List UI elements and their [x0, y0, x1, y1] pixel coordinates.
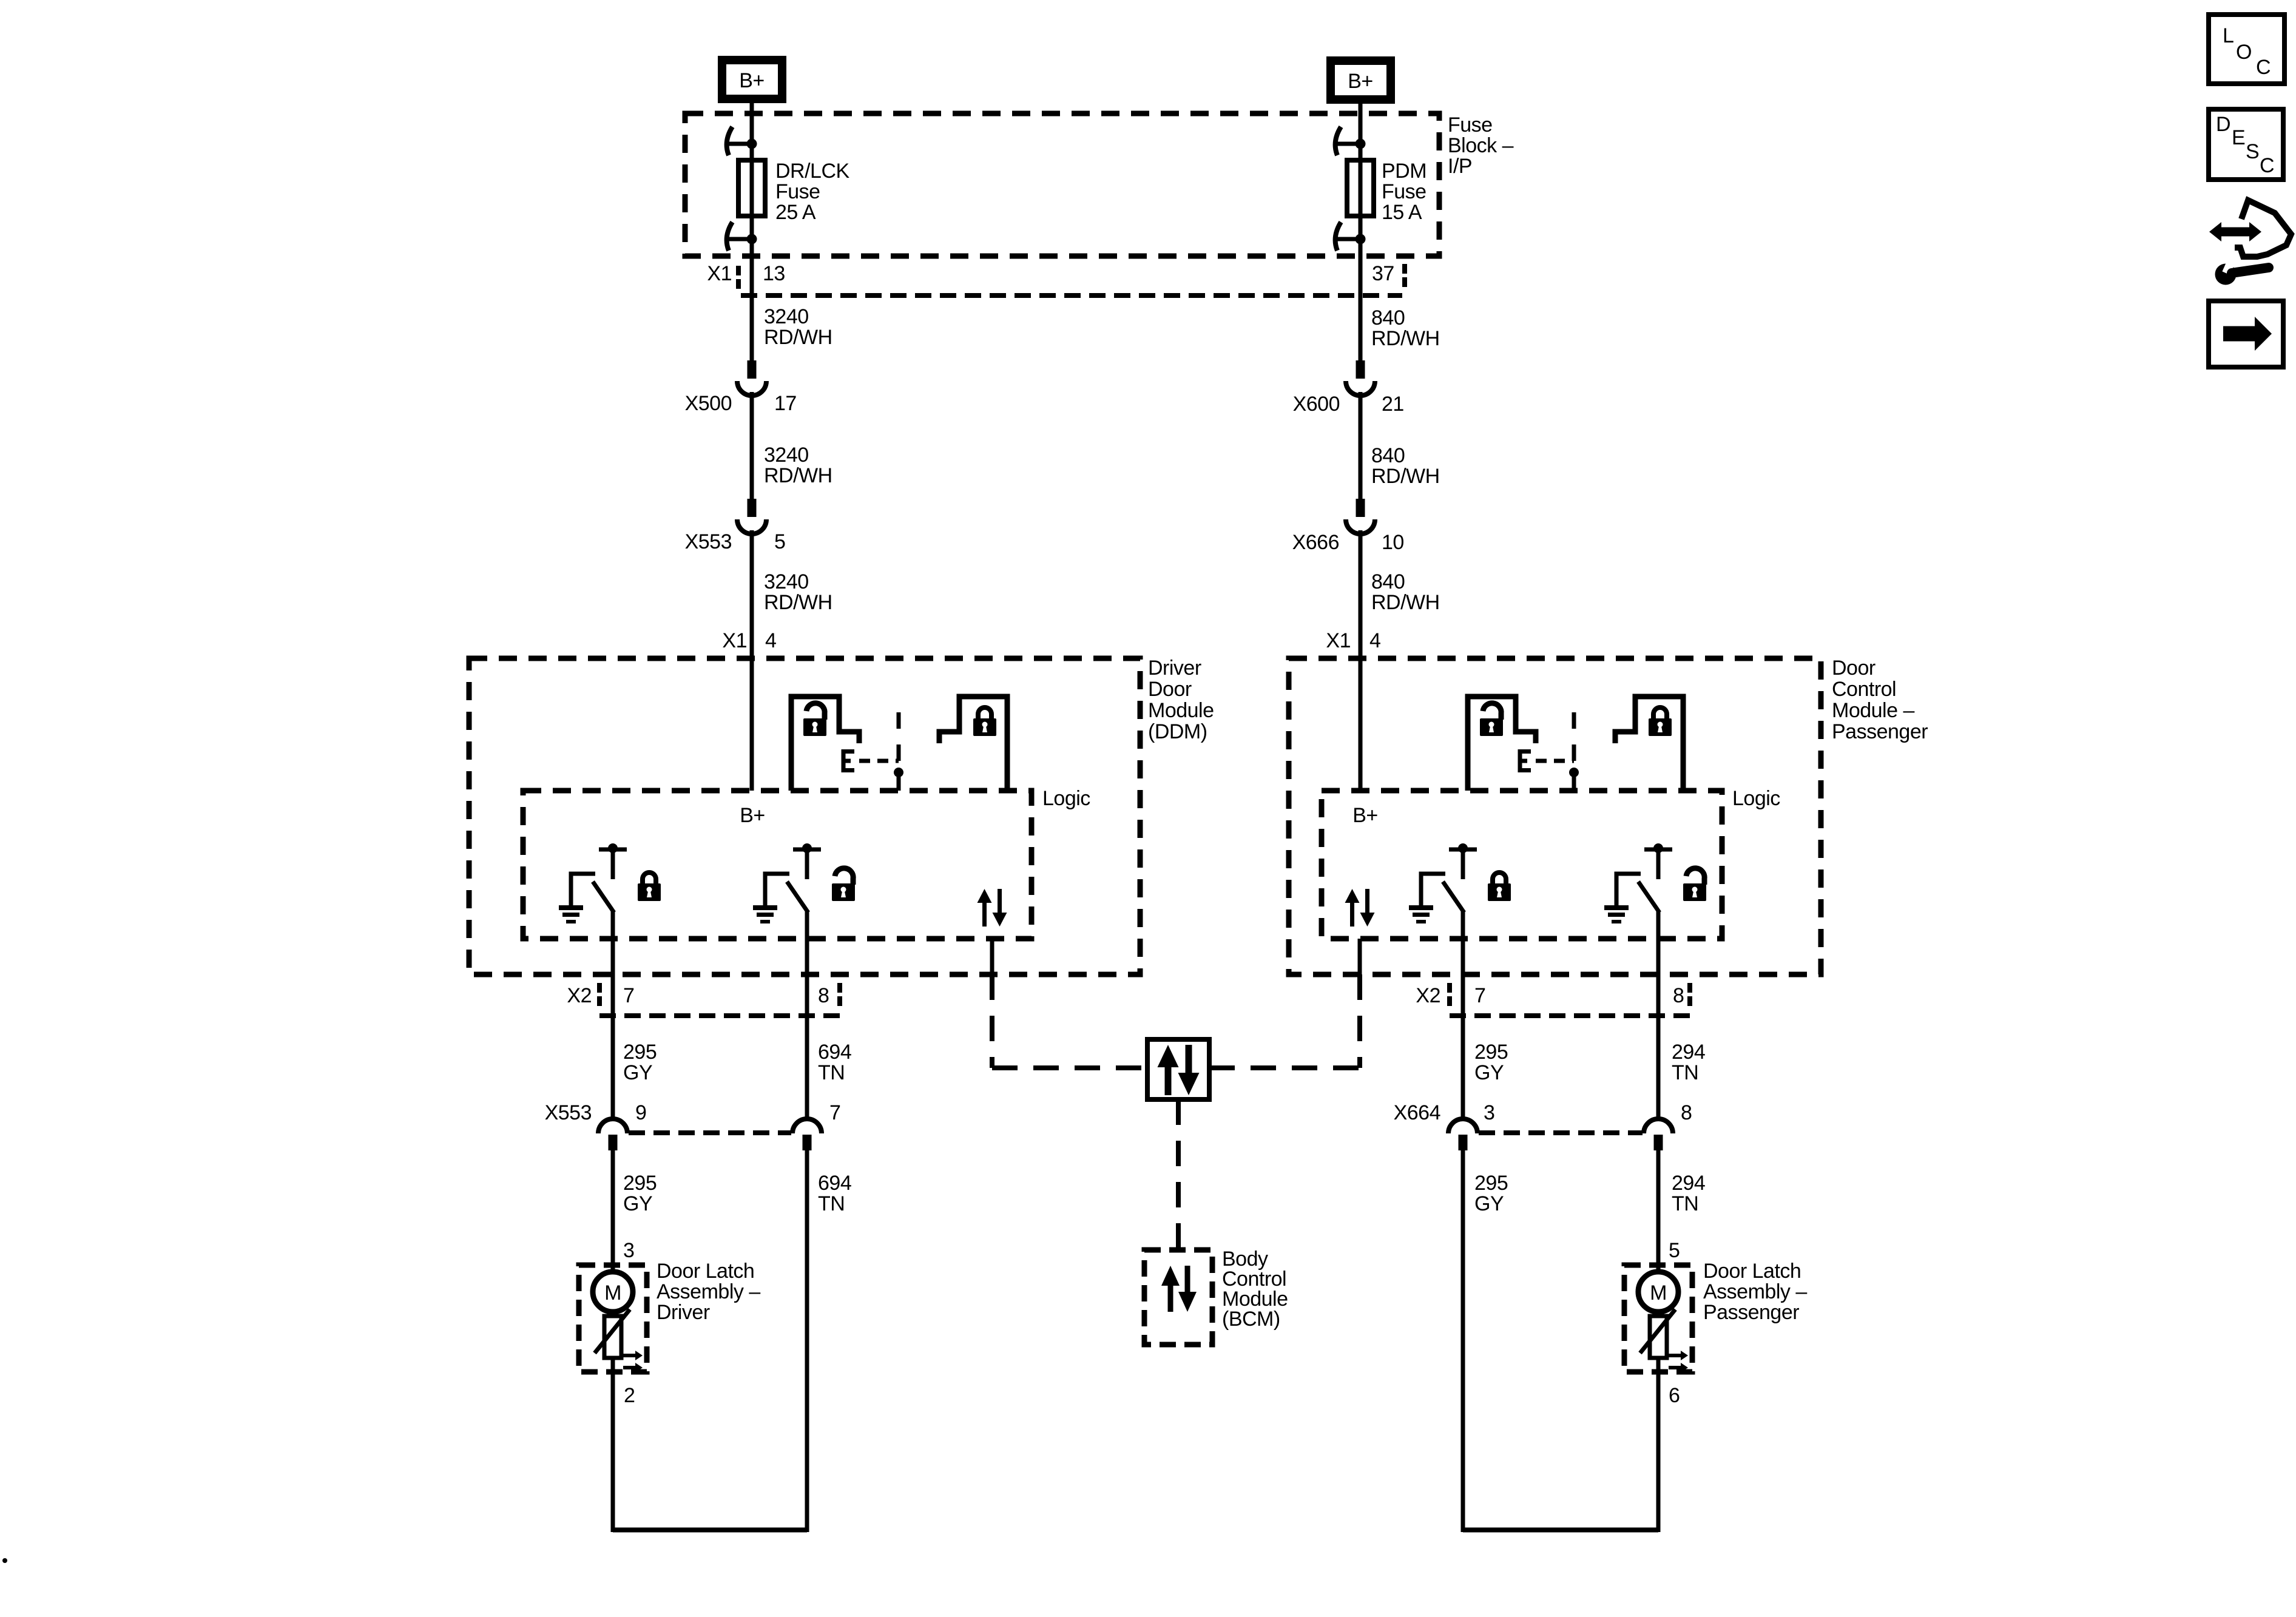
DDM unlock switch padlock icon — [832, 868, 855, 901]
door latch driver motor M — [593, 1272, 633, 1312]
DCM-P unlock switch padlock icon — [1683, 868, 1706, 901]
svg-text:Assembly –: Assembly – — [1703, 1280, 1807, 1303]
svg-text:X553: X553 — [685, 530, 732, 553]
wire label 295 GY (driver,2) — [623, 1172, 657, 1215]
BCM arrows icon — [1161, 1266, 1197, 1312]
svg-text:3: 3 — [623, 1239, 634, 1262]
DDM serial data wire — [990, 939, 994, 974]
svg-text:295: 295 — [623, 1172, 657, 1195]
svg-text:7: 7 — [623, 984, 634, 1007]
svg-text:B+: B+ — [1352, 804, 1378, 827]
fuse clip top right — [1335, 127, 1366, 155]
wire: X600 to X666 — [1359, 392, 1363, 499]
fuse block label — [1448, 113, 1514, 178]
svg-text:X500: X500 — [685, 392, 732, 415]
svg-text:Fuse: Fuse — [1448, 113, 1493, 137]
wire label 3240 RD/WH (3) — [764, 570, 832, 614]
svg-text:TN: TN — [1672, 1061, 1698, 1084]
svg-text:M: M — [1650, 1281, 1667, 1305]
junction box arrows icon — [1158, 1045, 1200, 1095]
svg-text:PDM: PDM — [1382, 160, 1427, 183]
wire: DDM pin8 to X553-7 — [805, 939, 809, 1120]
page mark dot — [2, 1558, 7, 1563]
door latch assembly driver dashed box — [579, 1265, 647, 1372]
fuse PDM 15A — [1347, 160, 1374, 216]
connector X1 pin 4 labels (left) — [722, 629, 776, 652]
serial data dashed wire junction to BCM — [1176, 1099, 1181, 1250]
wire: PDM fuse to X600 — [1359, 216, 1363, 360]
wire label 840 RD/WH (2) — [1371, 444, 1440, 488]
wire: X553-7 to loop (694 TN) — [805, 1150, 809, 1532]
svg-text:GY: GY — [1474, 1192, 1504, 1215]
LOC reference box — [2209, 15, 2284, 84]
svg-text:O: O — [2236, 41, 2252, 64]
svg-text:(DDM): (DDM) — [1148, 720, 1207, 743]
DCM-P X2 dashed line — [1450, 1013, 1690, 1018]
wire: PTC to pin 2 (driver) — [611, 1358, 615, 1532]
wire: X664-8 to door latch passenger — [1656, 1150, 1661, 1272]
serial data dashed line to junction — [992, 1065, 1147, 1070]
latch pin 3 label (driver) — [623, 1239, 634, 1262]
svg-text:X1: X1 — [722, 629, 747, 652]
serial data dashed line junction to DCM-P — [1209, 1065, 1360, 1070]
in-line connector X664 pin 8 — [1644, 1101, 1692, 1150]
DCM-P B+ node label — [1352, 804, 1378, 827]
connector X1 dashed line — [741, 293, 1402, 298]
svg-text:M: M — [604, 1281, 621, 1305]
DCM-P serial data wire — [1358, 939, 1362, 974]
wire label 840 RD/WH (1) — [1371, 306, 1440, 350]
DDM X2 dashed line — [599, 1013, 840, 1018]
svg-text:Assembly –: Assembly – — [657, 1280, 760, 1303]
svg-text:B+: B+ — [739, 69, 765, 92]
svg-text:Passenger: Passenger — [1832, 720, 1928, 743]
DCM-P lock switch — [1409, 843, 1477, 939]
svg-text:21: 21 — [1382, 393, 1404, 416]
power symbol B+ battery feed (right) — [1331, 61, 1391, 100]
svg-text:3240: 3240 — [764, 444, 809, 467]
svg-text:RD/WH: RD/WH — [1371, 327, 1440, 350]
connector X1 pin 13 labels — [707, 262, 785, 291]
svg-text:Door: Door — [1832, 657, 1876, 680]
wire label 840 RD/WH (3) — [1371, 570, 1440, 614]
door latch passenger label — [1703, 1260, 1807, 1324]
DCM-P unlock switch — [1604, 843, 1672, 939]
DCM-P lock padlock icon — [1649, 707, 1672, 736]
wire: X666 to DCM-P — [1359, 530, 1363, 791]
DCM-P lock knob icon — [1615, 697, 1683, 791]
svg-text:I/P: I/P — [1448, 155, 1472, 178]
svg-text:9: 9 — [635, 1101, 646, 1124]
wire label 3240 RD/WH (1) — [764, 305, 832, 349]
DDM serial data arrows icon — [977, 889, 1007, 927]
svg-text:DR/LCK: DR/LCK — [775, 160, 850, 183]
svg-text:8: 8 — [818, 984, 829, 1007]
wire label 294 TN (pass,1) — [1672, 1041, 1705, 1084]
svg-text:25 A: 25 A — [775, 201, 816, 224]
svg-text:TN: TN — [1672, 1192, 1698, 1215]
DCM-P unlock knob icon — [1468, 697, 1536, 791]
svg-text:GY: GY — [623, 1192, 652, 1215]
svg-text:RD/WH: RD/WH — [764, 326, 832, 349]
svg-text:S: S — [2246, 140, 2259, 163]
power symbol B+ battery feed (left) — [722, 60, 782, 99]
wire label 694 TN (driver,1) — [818, 1041, 851, 1084]
wire: X500 to X553 — [750, 392, 754, 499]
svg-text:X2: X2 — [567, 984, 592, 1007]
fuse clip top left — [727, 127, 757, 155]
svg-text:13: 13 — [763, 262, 785, 285]
svg-text:C: C — [2260, 154, 2274, 177]
wire label 694 TN (driver,2) — [818, 1172, 851, 1215]
svg-text:C: C — [2256, 56, 2271, 79]
svg-text:X553: X553 — [545, 1101, 592, 1124]
in-line connector X664 pin 3 — [1394, 1101, 1495, 1150]
svg-text:295: 295 — [1474, 1041, 1508, 1064]
fuse PDM label — [1382, 160, 1427, 224]
svg-text:7: 7 — [1474, 984, 1485, 1007]
DDM unlock padlock icon — [803, 703, 826, 736]
svg-text:Module –: Module – — [1832, 699, 1914, 722]
DCM-P serial data arrows icon — [1345, 889, 1375, 927]
latch pin 6 label (passenger) — [1669, 1384, 1680, 1407]
svg-text:Fuse: Fuse — [1382, 180, 1427, 203]
wire label 3240 RD/WH (2) — [764, 444, 832, 487]
DDM logic dashed box — [523, 791, 1032, 939]
latch pin 5 label (passenger) — [1669, 1239, 1680, 1262]
DDM unlock knob icon — [791, 697, 859, 791]
DDM label — [1148, 657, 1214, 743]
wire label 295 GY (driver,1) — [623, 1041, 657, 1084]
wire: DR/LCK fuse to X500 — [750, 216, 754, 360]
svg-text:5: 5 — [774, 530, 785, 553]
DDM lock knob icon — [939, 697, 1007, 791]
svg-text:Door Latch: Door Latch — [1703, 1260, 1801, 1283]
svg-text:X1: X1 — [707, 262, 732, 285]
serial data junction box — [1147, 1039, 1209, 1099]
door control module passenger dashed box — [1289, 658, 1821, 974]
DCM-P logic label — [1732, 787, 1780, 810]
svg-text:3: 3 — [1484, 1101, 1494, 1124]
wire: X553 to DDM — [750, 530, 754, 791]
wire: B+ to DR/LCK fuse — [750, 101, 754, 160]
svg-text:Driver: Driver — [657, 1301, 710, 1324]
svg-text:294: 294 — [1672, 1172, 1705, 1195]
svg-text:294: 294 — [1672, 1041, 1705, 1064]
svg-text:L: L — [2223, 24, 2234, 47]
svg-text:Door Latch: Door Latch — [657, 1260, 754, 1283]
wire: motor to PTC (passenger) — [1656, 1312, 1661, 1316]
DDM logic label — [1042, 787, 1090, 810]
door latch assembly passenger dashed box — [1624, 1265, 1692, 1372]
svg-text:3240: 3240 — [764, 570, 809, 593]
svg-text:Passenger: Passenger — [1703, 1301, 1799, 1324]
svg-text:37: 37 — [1372, 262, 1394, 285]
svg-text:295: 295 — [1474, 1172, 1508, 1195]
fuse clip bottom right — [1335, 222, 1366, 251]
X553 dashed line — [629, 1130, 791, 1135]
connector X1 pin 37 labels — [1372, 262, 1405, 289]
DESC reference box — [2209, 109, 2283, 180]
driver door module DDM dashed box — [469, 658, 1140, 974]
fuse block I/P dashed box — [685, 113, 1439, 256]
svg-text:2: 2 — [624, 1384, 635, 1407]
door latch passenger PTC — [1640, 1309, 1688, 1372]
in-line connector X553 pin 5 — [685, 499, 786, 553]
DDM lock switch — [559, 843, 627, 939]
DDM lock switch padlock icon — [638, 873, 661, 901]
svg-text:8: 8 — [1681, 1101, 1692, 1124]
svg-text:X664: X664 — [1394, 1101, 1440, 1124]
svg-text:8: 8 — [1673, 984, 1684, 1007]
DDM key-cylinder icon — [843, 712, 903, 791]
svg-text:RD/WH: RD/WH — [764, 591, 832, 614]
door latch driver label — [657, 1260, 760, 1324]
svg-text:15 A: 15 A — [1382, 201, 1422, 224]
svg-text:10: 10 — [1382, 531, 1404, 554]
DCM-P logic dashed box — [1322, 791, 1722, 939]
latch pin 2 label (driver) — [624, 1384, 635, 1407]
svg-text:RD/WH: RD/WH — [764, 464, 832, 487]
body control module BCM dashed box — [1144, 1250, 1212, 1345]
go-to arrow box — [2209, 301, 2283, 367]
wire: passenger latch return loop — [1463, 1528, 1658, 1533]
wire: DDM pin7 to X553-9 — [611, 939, 615, 1120]
DCM-P lock switch padlock icon — [1488, 873, 1511, 901]
svg-text:4: 4 — [1369, 629, 1380, 652]
svg-text:GY: GY — [1474, 1061, 1504, 1084]
svg-text:Fuse: Fuse — [775, 180, 820, 203]
wire: X553-9 to door latch driver — [611, 1150, 615, 1272]
wire: B+ to PDM fuse — [1359, 101, 1363, 160]
svg-text:X600: X600 — [1293, 393, 1340, 416]
svg-text:840: 840 — [1371, 444, 1405, 467]
wire: PTC to pin 6 (passenger) — [1656, 1358, 1661, 1532]
DDM B+ node label — [740, 804, 765, 827]
svg-text:D: D — [2216, 113, 2230, 136]
svg-text:TN: TN — [818, 1192, 845, 1215]
svg-text:B+: B+ — [740, 804, 765, 827]
svg-text:4: 4 — [765, 629, 776, 652]
svg-text:Driver: Driver — [1148, 657, 1201, 680]
fuse clip bottom left — [727, 222, 757, 251]
svg-text:X1: X1 — [1326, 629, 1351, 652]
svg-text:E: E — [2232, 126, 2245, 149]
svg-text:6: 6 — [1669, 1384, 1680, 1407]
wire: driver latch return loop — [613, 1528, 807, 1533]
svg-text:Logic: Logic — [1042, 787, 1090, 810]
door latch passenger motor M — [1638, 1272, 1678, 1312]
wire: motor to PTC (driver) — [611, 1312, 615, 1316]
DCM-P X2 connector labels — [1416, 983, 1690, 1007]
DDM lock padlock icon — [973, 707, 996, 736]
svg-text:17: 17 — [774, 392, 797, 415]
svg-text:7: 7 — [829, 1101, 840, 1124]
DDM unlock switch — [753, 843, 821, 939]
svg-text:295: 295 — [623, 1041, 657, 1064]
wire label 294 TN (pass,2) — [1672, 1172, 1705, 1215]
svg-text:RD/WH: RD/WH — [1371, 465, 1440, 488]
wire: X664-3 to loop (295 GY) — [1461, 1150, 1465, 1532]
svg-text:Logic: Logic — [1732, 787, 1780, 810]
DDM X2 connector labels — [567, 983, 840, 1007]
svg-text:840: 840 — [1371, 306, 1405, 329]
svg-text:5: 5 — [1669, 1239, 1680, 1262]
X664 dashed line — [1479, 1130, 1643, 1135]
svg-text:Block –: Block – — [1448, 134, 1514, 157]
svg-text:694: 694 — [818, 1041, 851, 1064]
svg-text:(BCM): (BCM) — [1222, 1308, 1280, 1331]
svg-text:Door: Door — [1148, 678, 1192, 701]
repair instructions icon — [2209, 200, 2291, 285]
svg-text:TN: TN — [818, 1061, 845, 1084]
svg-text:X2: X2 — [1416, 984, 1440, 1007]
serial data dashed wire from DCM-P — [1357, 974, 1362, 1068]
connector X1 pin 4 labels (right) — [1326, 629, 1380, 652]
wire label 295 GY (pass,2) — [1474, 1172, 1508, 1215]
in-line connector X553 pin 7 — [792, 1101, 840, 1150]
svg-text:B+: B+ — [1348, 70, 1373, 93]
fuse DR/LCK 25A — [738, 160, 765, 216]
svg-text:3240: 3240 — [764, 305, 809, 328]
in-line connector X553 pin 9 — [545, 1101, 647, 1150]
svg-text:840: 840 — [1371, 570, 1405, 593]
in-line connector X500 pin 17 — [685, 360, 797, 415]
svg-text:RD/WH: RD/WH — [1371, 591, 1440, 614]
wire: DCM-P pin7 to X664-3 — [1461, 939, 1465, 1120]
svg-text:X666: X666 — [1292, 531, 1339, 554]
in-line connector X666 pin 10 — [1292, 499, 1404, 554]
svg-text:694: 694 — [818, 1172, 851, 1195]
DCM-P key-cylinder icon — [1520, 712, 1579, 791]
svg-text:Module: Module — [1148, 699, 1214, 722]
in-line connector X600 pin 21 — [1293, 360, 1404, 416]
BCM label — [1222, 1247, 1288, 1331]
wire label 295 GY (pass,1) — [1474, 1041, 1508, 1084]
door latch driver PTC — [595, 1309, 643, 1372]
svg-text:Control: Control — [1832, 678, 1896, 701]
fuse DR/LCK label — [775, 160, 850, 224]
serial data dashed wire from DDM — [990, 974, 994, 1068]
wire: DCM-P pin8 to X664-8 — [1656, 939, 1661, 1120]
DCM-P label — [1832, 657, 1928, 743]
svg-text:GY: GY — [623, 1061, 652, 1084]
DCM-P unlock padlock icon — [1480, 703, 1503, 736]
